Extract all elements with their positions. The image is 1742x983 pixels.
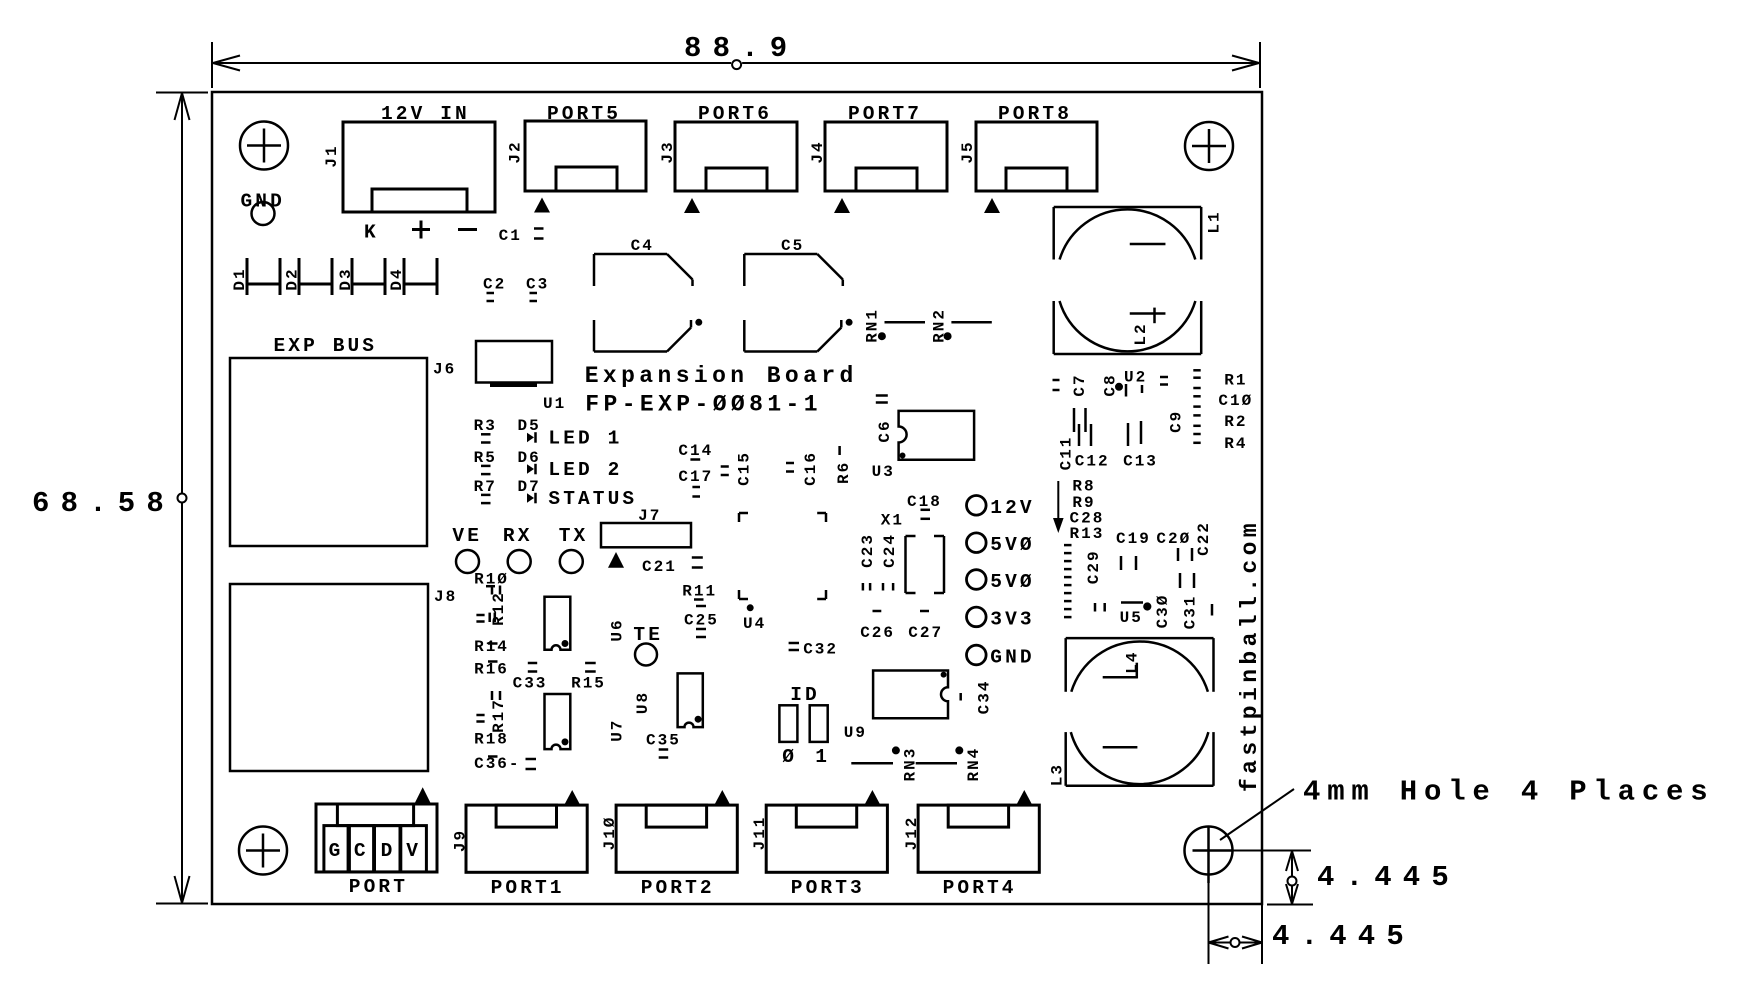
svg-text:ID: ID [790, 684, 820, 706]
svg-text:Expansion Board: Expansion Board [585, 363, 858, 389]
svg-text:J1: J1 [323, 144, 341, 167]
svg-text:D5: D5 [518, 417, 541, 435]
svg-text:K: K [364, 222, 379, 244]
svg-text:R7: R7 [474, 478, 497, 496]
svg-text:C27: C27 [908, 624, 943, 642]
svg-text:3V3: 3V3 [990, 608, 1034, 630]
svg-text:L1: L1 [1205, 210, 1223, 233]
svg-text:fastpinball.com: fastpinball.com [1237, 519, 1263, 792]
svg-text:J6: J6 [433, 361, 456, 379]
svg-text:C2Ø: C2Ø [1156, 530, 1191, 548]
svg-text:D6: D6 [518, 449, 541, 467]
svg-text:C21: C21 [642, 558, 677, 576]
svg-text:C1Ø: C1Ø [1218, 392, 1253, 410]
svg-text:J11: J11 [751, 816, 769, 851]
svg-text:C12: C12 [1075, 453, 1110, 471]
svg-text:STATUS: STATUS [548, 488, 637, 510]
svg-text:LED 1: LED 1 [548, 428, 622, 450]
svg-text:C33: C33 [513, 675, 548, 693]
svg-text:C3: C3 [526, 276, 549, 294]
svg-text:U5: U5 [1120, 609, 1143, 627]
svg-text:R11: R11 [682, 583, 717, 601]
svg-text:PORT6: PORT6 [698, 103, 772, 125]
svg-text:C31: C31 [1181, 595, 1199, 630]
svg-text:U9: U9 [844, 724, 867, 742]
svg-text:C23: C23 [859, 533, 877, 568]
svg-text:RX: RX [503, 525, 533, 547]
svg-text:5VØ: 5VØ [990, 534, 1034, 556]
svg-text:R5: R5 [474, 449, 497, 467]
svg-text:C2: C2 [483, 276, 506, 294]
svg-text:FP-EXP-ØØ81-1: FP-EXP-ØØ81-1 [585, 392, 822, 418]
svg-text:C16: C16 [802, 451, 820, 486]
svg-text:G: G [329, 840, 344, 862]
svg-text:GND: GND [990, 647, 1034, 669]
svg-text:C9: C9 [1168, 410, 1186, 433]
svg-text:R18: R18 [474, 731, 509, 749]
svg-text:C: C [354, 840, 369, 862]
svg-text:PORT4: PORT4 [943, 877, 1017, 899]
svg-text:X1: X1 [881, 512, 904, 530]
svg-text:R6: R6 [835, 461, 853, 484]
svg-text:VE: VE [452, 525, 482, 547]
svg-text:4mm Hole 4 Places: 4mm Hole 4 Places [1303, 776, 1714, 809]
svg-text:U7: U7 [608, 719, 626, 742]
svg-text:EXP BUS: EXP BUS [274, 335, 378, 357]
svg-text:C14: C14 [678, 442, 713, 460]
svg-text:L4: L4 [1123, 650, 1141, 673]
svg-text:PORT1: PORT1 [491, 877, 565, 899]
svg-text:TX: TX [559, 525, 589, 547]
svg-text:C18: C18 [907, 493, 942, 511]
svg-text:RN4: RN4 [965, 747, 983, 782]
svg-text:U6: U6 [608, 618, 626, 641]
svg-text:C22: C22 [1195, 521, 1213, 556]
svg-text:C19: C19 [1116, 530, 1151, 548]
svg-text:U3: U3 [872, 463, 895, 481]
svg-text:C35: C35 [646, 731, 681, 749]
svg-text:R15: R15 [571, 675, 606, 693]
svg-text:J1Ø: J1Ø [601, 816, 619, 851]
svg-text:J7: J7 [638, 507, 661, 525]
svg-text:J3: J3 [659, 140, 677, 163]
svg-text:C5: C5 [781, 237, 804, 255]
svg-text:R4: R4 [1224, 435, 1247, 453]
svg-text:D3: D3 [337, 267, 355, 290]
svg-text:C32: C32 [803, 640, 838, 658]
svg-text:C25: C25 [684, 612, 719, 630]
svg-text:C11: C11 [1058, 436, 1076, 471]
svg-text:C1: C1 [499, 227, 522, 245]
svg-text:U1: U1 [543, 395, 566, 413]
svg-text:D4: D4 [388, 267, 406, 290]
svg-text:C29: C29 [1085, 549, 1103, 584]
svg-text:U4: U4 [743, 615, 766, 633]
svg-text:D7: D7 [518, 478, 541, 496]
svg-text:R13: R13 [1070, 525, 1105, 543]
svg-text:Ø: Ø [782, 746, 797, 768]
svg-text:J4: J4 [809, 140, 827, 163]
svg-text:C15: C15 [736, 451, 754, 486]
svg-text:V: V [406, 840, 421, 862]
svg-text:L3: L3 [1048, 763, 1066, 786]
svg-text:4.445: 4.445 [1317, 861, 1460, 894]
svg-text:C3Ø: C3Ø [1154, 594, 1172, 629]
svg-text:J9: J9 [452, 829, 470, 852]
svg-text:12V IN: 12V IN [381, 103, 470, 125]
svg-text:R2: R2 [1224, 413, 1247, 431]
svg-text:U2: U2 [1124, 369, 1147, 387]
svg-text:R16: R16 [474, 661, 509, 679]
svg-text:PORT: PORT [349, 876, 408, 898]
svg-text:D2: D2 [283, 267, 301, 290]
svg-text:1: 1 [815, 746, 830, 768]
svg-text:R1: R1 [1224, 372, 1247, 390]
svg-text:LED 2: LED 2 [548, 459, 622, 481]
svg-text:R12: R12 [490, 591, 508, 626]
svg-text:PORT8: PORT8 [998, 103, 1072, 125]
svg-text:J2: J2 [506, 140, 524, 163]
svg-text:R17: R17 [490, 698, 508, 733]
svg-text:L2: L2 [1132, 322, 1150, 345]
svg-text:C6: C6 [876, 419, 894, 442]
svg-text:J12: J12 [903, 816, 921, 851]
svg-text:R14: R14 [474, 638, 509, 656]
svg-text:R3: R3 [474, 417, 497, 435]
svg-text:C13: C13 [1123, 453, 1158, 471]
svg-text:68.58: 68.58 [32, 487, 175, 520]
svg-text:12V: 12V [990, 497, 1034, 519]
svg-text:J8: J8 [434, 588, 457, 606]
svg-text:PORT5: PORT5 [547, 103, 621, 125]
svg-text:88.9: 88.9 [684, 32, 798, 65]
svg-text:U8: U8 [634, 691, 652, 714]
svg-text:D: D [381, 840, 396, 862]
svg-text:J5: J5 [959, 140, 977, 163]
svg-text:4.445: 4.445 [1272, 920, 1415, 953]
svg-text:C24: C24 [881, 533, 899, 568]
svg-text:PORT2: PORT2 [641, 877, 715, 899]
svg-text:C26: C26 [860, 624, 895, 642]
svg-text:C4: C4 [631, 237, 654, 255]
svg-text:D1: D1 [231, 267, 249, 290]
svg-text:C17: C17 [678, 468, 713, 486]
svg-text:C34: C34 [975, 679, 993, 714]
svg-text:PORT3: PORT3 [791, 877, 865, 899]
svg-text:C7: C7 [1071, 373, 1089, 396]
svg-text:PORT7: PORT7 [848, 103, 922, 125]
svg-text:5VØ: 5VØ [990, 571, 1034, 593]
